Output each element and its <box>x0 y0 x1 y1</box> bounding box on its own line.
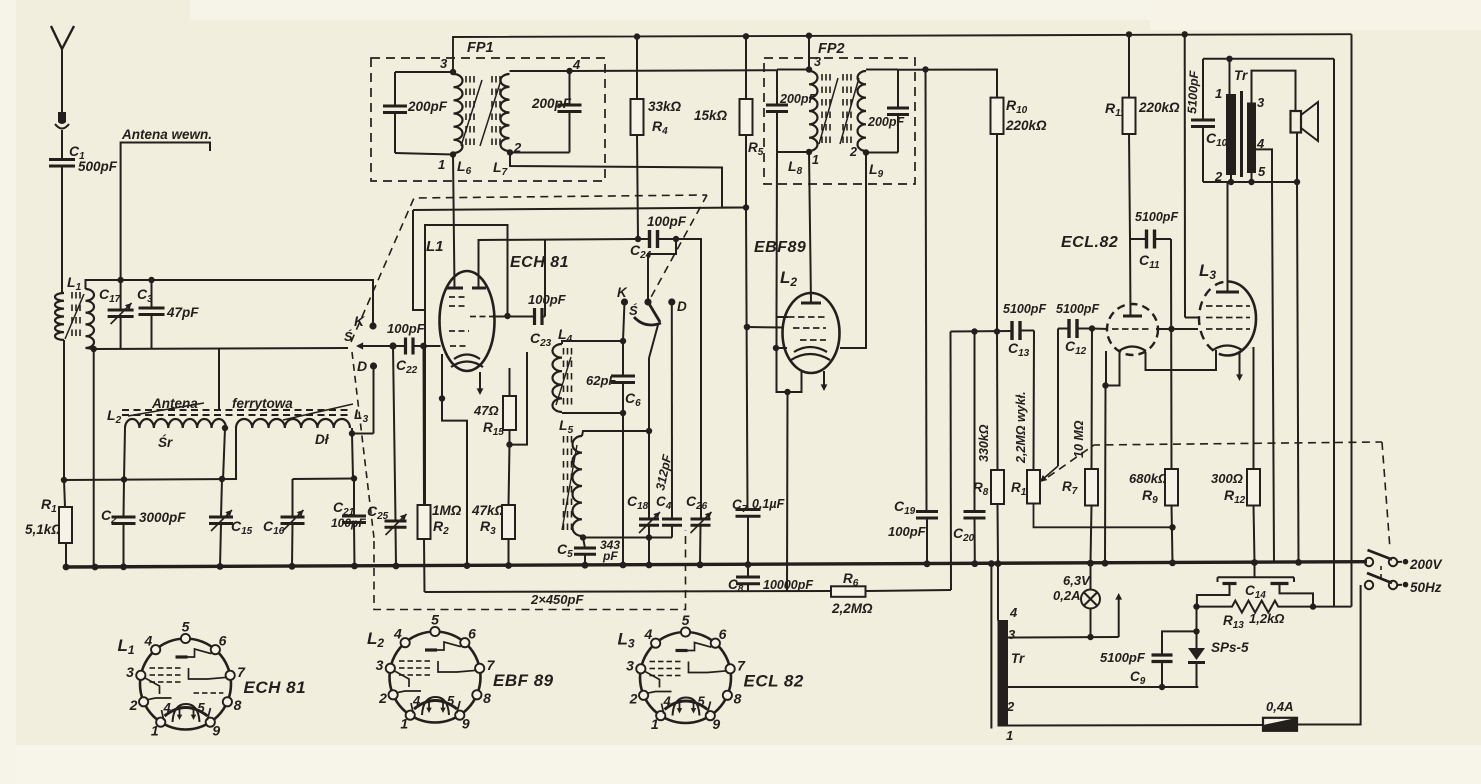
wire heater line <box>1008 636 1119 639</box>
wire R8 top <box>996 332 999 471</box>
wire AVC row left <box>64 479 237 480</box>
svg-text:100pF: 100pF <box>387 321 426 336</box>
svg-text:300Ω: 300Ω <box>1211 471 1243 486</box>
wire C24 right to C26 column <box>676 239 701 519</box>
wire C11 right down to R9 <box>1170 239 1173 469</box>
wire detector down <box>950 332 953 591</box>
svg-text:50Hz: 50Hz <box>1410 580 1442 595</box>
svg-text:Ś: Ś <box>629 303 638 318</box>
triode grid <box>1092 328 1108 331</box>
svg-text:3: 3 <box>440 56 448 71</box>
wire R14 bottom to R9 lead <box>1034 504 1173 528</box>
svg-text:2,2MΩ wykł.: 2,2MΩ wykł. <box>1014 391 1028 464</box>
wire R15 bottom right hook <box>510 352 528 445</box>
wire FP1 left tank bottom <box>395 153 453 155</box>
wire C13 to R14 top <box>1033 331 1036 471</box>
wire C16 C21 row <box>293 478 355 481</box>
pentode grids <box>1206 305 1213 307</box>
core FP2 <box>821 74 823 81</box>
svg-text:1: 1 <box>1006 728 1013 743</box>
socket L2 EBF 89 <box>376 612 496 732</box>
wire C6 column to bus <box>622 413 624 565</box>
svg-text:ECL 82: ECL 82 <box>744 672 804 691</box>
wire fuse to switch <box>1297 585 1361 725</box>
svg-text:6: 6 <box>719 626 727 642</box>
svg-text:6,3V: 6,3V <box>1063 573 1091 588</box>
triode cathode arc <box>1119 347 1146 352</box>
ECH81 grids <box>449 296 455 298</box>
EBF89 anode bar <box>801 302 821 305</box>
svg-text:5100pF: 5100pF <box>1185 70 1201 114</box>
wire FP1 right tank bottom <box>510 152 570 154</box>
ferrite rod <box>122 409 129 411</box>
wire wiper to C12 <box>1057 329 1059 467</box>
wire tap4 <box>1256 149 1273 182</box>
svg-text:5: 5 <box>1258 164 1266 179</box>
triode grid wire to C23 <box>504 313 510 319</box>
pentode arrow <box>1239 352 1241 376</box>
resistor R4 33k <box>634 33 640 39</box>
capacitor C3 47pF <box>151 280 153 308</box>
triode cathode wires <box>1106 351 1120 386</box>
dashed link S up to FP area <box>351 195 707 342</box>
switch2 wiper wire to L5 <box>648 358 650 431</box>
wire R2 bottom to AVC bus <box>423 539 426 592</box>
wire tank top <box>86 280 374 326</box>
svg-text:1: 1 <box>151 722 159 738</box>
svg-text:3: 3 <box>814 55 821 69</box>
ECH81 anode bars <box>447 287 463 290</box>
dashed box 2x450pF <box>374 530 686 610</box>
switch2 contact K <box>621 298 628 305</box>
svg-text:EBF 89: EBF 89 <box>493 671 554 690</box>
svg-text:Dł: Dł <box>315 432 330 447</box>
svg-text:220kΩ: 220kΩ <box>1005 118 1047 133</box>
arrow up chassis <box>1118 598 1120 637</box>
wire tap4 down to bus <box>1272 182 1274 562</box>
svg-text:9: 9 <box>212 722 220 738</box>
svg-text:5100pF: 5100pF <box>1135 210 1178 224</box>
resistor R11 220k <box>1126 31 1132 37</box>
wire pin5 <box>1251 173 1253 183</box>
dashed box FP2 <box>764 58 915 184</box>
svg-text:4: 4 <box>412 693 421 708</box>
svg-text:5: 5 <box>698 694 706 709</box>
svg-text:5100pF: 5100pF <box>1056 302 1099 316</box>
svg-text:Śr: Śr <box>158 435 173 450</box>
svg-text:1: 1 <box>400 715 408 731</box>
core L4 L5 <box>563 348 565 355</box>
svg-text:5: 5 <box>198 700 206 715</box>
switch wiper S with arrow <box>389 342 396 349</box>
svg-text:5: 5 <box>182 619 190 635</box>
wire pin2 to R5 bottom <box>510 153 746 208</box>
socket L3 ECL 82 <box>626 612 746 732</box>
svg-text:47pF: 47pF <box>166 305 199 320</box>
core L1 with arrow <box>71 292 73 299</box>
svg-text:0,4A: 0,4A <box>1266 699 1293 714</box>
svg-text:4: 4 <box>393 625 402 641</box>
svg-text:15kΩ: 15kΩ <box>694 108 728 123</box>
svg-text:4: 4 <box>163 700 172 715</box>
EBF89 screen wire from FP2 <box>776 152 779 317</box>
svg-text:1: 1 <box>651 716 659 732</box>
svg-text:Antena wewn.: Antena wewn. <box>121 127 212 142</box>
resistor R5 15k <box>743 33 749 39</box>
ground bus main <box>64 562 1367 567</box>
wire detector row <box>951 330 1013 333</box>
svg-text:8: 8 <box>734 691 742 707</box>
dashed link switch to gang <box>352 352 374 538</box>
svg-text:680kΩ: 680kΩ <box>1129 471 1168 486</box>
wire L9 to R10 top <box>898 70 997 98</box>
ECH81 cathode arcs <box>454 355 480 360</box>
wire pin1 <box>1229 59 1231 95</box>
svg-text:8: 8 <box>483 690 491 706</box>
svg-text:2: 2 <box>129 697 138 713</box>
wire D2 down to C4 <box>671 302 673 519</box>
svg-text:FP1: FP1 <box>467 40 494 56</box>
svg-text:47kΩ: 47kΩ <box>471 503 506 518</box>
wire antena wewn. <box>121 143 210 281</box>
wire L1 bottom to bus <box>63 340 65 480</box>
wire heptode anode to C24 <box>479 239 639 288</box>
svg-text:K: K <box>617 285 628 300</box>
svg-text:9: 9 <box>462 715 470 731</box>
socket L1 ECH 81 <box>126 619 246 739</box>
wire pin4 to L8 <box>570 69 778 72</box>
switch contact D <box>370 362 377 369</box>
wire top bus to FP2 pin3 <box>806 33 812 39</box>
wire C24 to switch2 S <box>648 239 676 299</box>
wire tank bottom to switch <box>91 346 97 352</box>
wire Dl left down <box>235 428 237 480</box>
svg-text:0,2A: 0,2A <box>1053 588 1080 603</box>
svg-text:FP2: FP2 <box>818 41 845 57</box>
wire R11 to triode anode <box>1129 239 1132 316</box>
svg-text:330kΩ: 330kΩ <box>977 424 991 462</box>
svg-text:1: 1 <box>1215 86 1222 101</box>
wire g2 line to ECH81 <box>413 208 746 211</box>
wire L8 pin1 to EBF89 anode <box>809 152 811 303</box>
svg-text:100pF: 100pF <box>647 214 687 229</box>
wire R5 column down to C7 <box>746 208 748 510</box>
svg-text:EBF89: EBF89 <box>754 239 806 256</box>
switch contact K <box>369 322 376 329</box>
wire EBF89 cathode to AVC bus <box>786 392 789 591</box>
svg-text:4: 4 <box>1009 605 1018 620</box>
svg-text:200V: 200V <box>1409 557 1443 572</box>
speaker <box>1291 111 1302 133</box>
svg-text:5100pF: 5100pF <box>1100 650 1146 665</box>
svg-text:100pF: 100pF <box>528 292 567 307</box>
svg-text:5100pF: 5100pF <box>1003 302 1046 316</box>
svg-text:4: 4 <box>644 626 653 642</box>
wire K2 down to L4 top <box>623 302 625 341</box>
svg-text:L1: L1 <box>426 238 444 255</box>
svg-text:200pF: 200pF <box>407 99 448 114</box>
svg-text:33kΩ: 33kΩ <box>648 99 682 114</box>
svg-text:500pF: 500pF <box>78 159 118 174</box>
svg-text:1: 1 <box>812 153 819 167</box>
wire L4 bottom <box>562 412 623 414</box>
pentode cathode arc <box>1213 346 1242 351</box>
EBF89 g1 wire <box>744 324 750 330</box>
svg-text:2: 2 <box>378 690 387 706</box>
svg-text:2,2MΩ: 2,2MΩ <box>831 601 873 616</box>
wire Sr right down <box>222 425 228 431</box>
wire B+ right side down <box>1333 59 1335 607</box>
R14 wiper arrow <box>1043 466 1058 479</box>
svg-text:4: 4 <box>144 632 153 648</box>
wire FP2 out to R10 <box>922 66 928 72</box>
wire g1 node to pentode <box>1172 328 1199 330</box>
svg-text:5: 5 <box>447 693 455 708</box>
pentode cathode wires <box>1146 350 1217 370</box>
svg-text:ECH 81: ECH 81 <box>510 254 569 271</box>
wire R10 down to detector node <box>996 134 998 332</box>
wire Sr left down <box>124 428 125 480</box>
svg-text:6: 6 <box>468 625 476 641</box>
EBF89 grids <box>788 316 795 318</box>
coil L1 secondary <box>86 289 95 348</box>
svg-text:Tr: Tr <box>1011 651 1025 666</box>
svg-text:47Ω: 47Ω <box>473 403 499 418</box>
wire L5 bottom <box>582 536 583 538</box>
wire speaker bottom to ground bus <box>1296 133 1298 183</box>
dashed box FP1 <box>371 58 605 181</box>
wire B+ top feed <box>1203 58 1334 60</box>
coil L9 <box>858 71 866 151</box>
coil L7 <box>501 74 510 151</box>
AVC bus second line <box>425 591 832 592</box>
svg-text:SPs-5: SPs-5 <box>1211 640 1249 655</box>
svg-text:5,1kΩ: 5,1kΩ <box>25 522 62 537</box>
svg-text:1: 1 <box>438 157 445 172</box>
svg-text:8: 8 <box>234 697 242 713</box>
triode of ECL82 <box>1107 304 1158 355</box>
ECH81 cathode wire left <box>441 354 443 399</box>
svg-text:pF: pF <box>602 549 618 563</box>
svg-text:10000pF: 10000pF <box>763 578 813 592</box>
svg-text:5: 5 <box>682 612 690 628</box>
svg-text:2: 2 <box>849 145 857 159</box>
wire top bus left corner <box>453 34 1352 72</box>
coil L8 <box>806 66 812 72</box>
EBF89 cathode arcs <box>794 347 827 352</box>
wire L9 top to cap <box>866 69 898 71</box>
switch2 contact S <box>644 298 651 305</box>
svg-text:3: 3 <box>1008 627 1016 642</box>
svg-text:2: 2 <box>1006 699 1015 714</box>
svg-text:ferrytowa: ferrytowa <box>232 396 293 411</box>
wire S wiper to C25 <box>393 346 396 521</box>
svg-text:2: 2 <box>629 691 638 707</box>
wire L5 bottom to C4 <box>583 537 672 539</box>
svg-text:3: 3 <box>376 657 384 673</box>
pentode screen wire <box>1182 31 1188 37</box>
wire FP1 left tank top <box>395 71 453 73</box>
svg-text:6: 6 <box>219 632 227 648</box>
capacitor C17 variable <box>120 280 122 310</box>
svg-text:4: 4 <box>572 57 581 72</box>
EBF89 cathode hook <box>777 317 802 392</box>
mains switch <box>1365 558 1373 566</box>
wire common bottom <box>1203 181 1297 183</box>
ECH81 arrow <box>479 372 481 390</box>
dashed mech link R14 to mains switch <box>1048 442 1382 477</box>
svg-text:2×450pF: 2×450pF <box>530 592 584 607</box>
capacitor C16 variable <box>292 479 294 517</box>
switch2 contact D <box>668 298 675 305</box>
wire L6 pin1 to anode <box>453 155 455 289</box>
wire FP1 right tank top <box>510 70 570 72</box>
wire C23 up to anode line <box>544 240 546 317</box>
coil L6 <box>450 69 456 75</box>
wire pin1 power to fuse <box>1008 724 1264 727</box>
wire pin2 <box>1230 175 1232 183</box>
switch2 wiper <box>648 302 660 322</box>
capacitor C15 variable <box>221 479 222 517</box>
core FP1 with arrows <box>465 76 467 83</box>
wire Dl right <box>349 430 355 436</box>
wire L9 pin2 to diode <box>840 153 866 349</box>
svg-text:9: 9 <box>712 716 720 732</box>
wire D band switch <box>373 366 375 434</box>
dashed link to switch 2 <box>650 195 707 299</box>
wire R13 to right verticals <box>1313 606 1352 608</box>
svg-text:3: 3 <box>126 664 134 680</box>
capacitor C1 500pF <box>49 158 75 161</box>
svg-text:5: 5 <box>431 612 439 628</box>
svg-text:3: 3 <box>1257 95 1265 110</box>
EBF89 arrow <box>823 371 825 386</box>
svg-text:1MΩ: 1MΩ <box>432 503 462 518</box>
svg-text:4: 4 <box>663 694 672 709</box>
svg-text:ECL.82: ECL.82 <box>1061 234 1118 251</box>
svg-text:100pF: 100pF <box>888 524 927 539</box>
svg-text:3000pF: 3000pF <box>139 510 186 525</box>
svg-text:ECH 81: ECH 81 <box>244 678 307 697</box>
svg-text:D: D <box>357 358 367 374</box>
wire C19 column <box>926 70 927 512</box>
svg-text:D: D <box>677 299 687 314</box>
wire pin2 power <box>1008 686 1199 688</box>
antenna <box>51 26 74 49</box>
wire pin3 to speaker <box>1252 71 1296 111</box>
svg-text:Tr: Tr <box>1234 68 1248 83</box>
pentode anode bar <box>1216 291 1239 294</box>
svg-text:3: 3 <box>626 658 634 674</box>
wire R4 to C24 <box>637 135 638 239</box>
svg-text:220kΩ: 220kΩ <box>1138 100 1180 115</box>
